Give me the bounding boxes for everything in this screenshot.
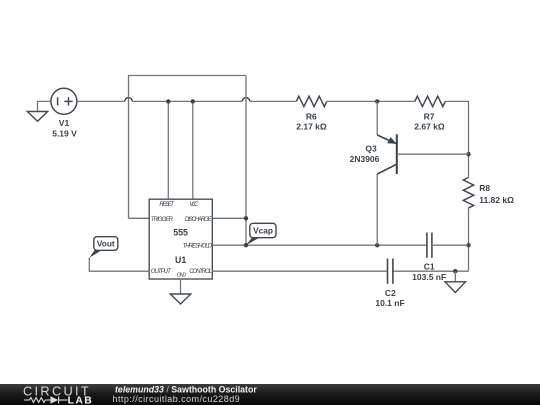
ic U1 555 box <box>149 199 212 279</box>
svg-text:OUTPUT: OUTPUT <box>151 268 172 275</box>
svg-text:DISCHARGE: DISCHARGE <box>185 216 213 223</box>
node: THRESHOLD-DISCHARGE tie <box>244 243 248 247</box>
wire: R6 to R7 <box>327 100 415 102</box>
wire: GND pin of U1 <box>180 279 182 294</box>
flag Vcap <box>246 223 276 245</box>
wire: DISCHARGE vertical down to THRESHOLD wire <box>245 76 247 246</box>
svg-text:Vout: Vout <box>97 239 115 249</box>
wire: rail down to Q3 emitter <box>376 101 378 135</box>
svg-text:R6: R6 <box>306 112 317 122</box>
wire: main rail V1 to R6 (hops over TRIGGER and DISCHARGE verticals) <box>77 100 296 102</box>
svg-text:CONTROL: CONTROL <box>189 268 212 275</box>
svg-text:TRIGGER: TRIGGER <box>151 216 174 223</box>
wire: rail to VCC pin <box>192 101 194 199</box>
svg-text:10.1 nF: 10.1 nF <box>375 298 404 308</box>
transistor Q3 emitter arrow <box>387 137 396 144</box>
node: emitter tie on rail <box>375 99 379 103</box>
node: base tie on right column <box>466 152 470 156</box>
node: C1 tie on right column <box>466 243 470 247</box>
svg-text:LAB: LAB <box>68 395 94 405</box>
svg-text:V1: V1 <box>59 118 70 128</box>
label R7 value <box>414 112 445 132</box>
svg-text:2.17 kΩ: 2.17 kΩ <box>296 122 327 132</box>
label C1 value <box>412 262 446 282</box>
wire: C1 right plate to column <box>432 244 469 246</box>
resistor R8 <box>463 178 473 208</box>
wire: V1 negative lead to ground <box>38 101 51 111</box>
svg-text:5.19 V: 5.19 V <box>52 128 77 138</box>
svg-text:2.67 kΩ: 2.67 kΩ <box>414 122 445 132</box>
ic U1 pin labels <box>151 201 213 279</box>
wire hop at x=246 <box>242 98 250 102</box>
ic U1 designator and type <box>173 227 188 265</box>
wire: Q3 collector down to THRESHOLD wire <box>376 174 378 245</box>
label Q3 <box>350 143 380 163</box>
wire: Q3 base to right column <box>397 153 469 155</box>
voltage source V1 <box>51 88 77 114</box>
svg-text:U1: U1 <box>175 255 186 265</box>
footer bar <box>0 384 540 405</box>
svg-text:C2: C2 <box>385 288 396 298</box>
svg-text:R7: R7 <box>424 112 435 122</box>
label C2 value <box>375 288 404 308</box>
footer logo diode triangle <box>50 396 58 404</box>
wire: TRIGGER loop (top horizontal and left vertical to TRIGGER pin) <box>129 76 247 219</box>
label R6 value <box>296 112 327 132</box>
svg-text:103.5 nF: 103.5 nF <box>412 272 446 282</box>
footer logo circuit doodle <box>24 396 68 403</box>
svg-text:Vcap: Vcap <box>253 226 273 236</box>
svg-text:Q3: Q3 <box>365 143 377 153</box>
node: ground tie on control wire <box>453 269 457 273</box>
wire: R7 to right column <box>445 101 468 177</box>
node: rail-RESET junction <box>166 99 170 103</box>
flag Vout <box>89 237 118 258</box>
resistor R6 <box>296 96 326 106</box>
resistor R7 <box>415 96 445 106</box>
node: collector to THRESHOLD wire <box>375 243 379 247</box>
wire: DISCHARGE pin stub <box>212 217 246 219</box>
ground (at V1) <box>27 112 47 122</box>
svg-text:http://circuitlab.com/cu228d9: http://circuitlab.com/cu228d9 <box>113 394 241 404</box>
svg-text:C1: C1 <box>424 262 435 272</box>
wire: OUTPUT pin to Vout terminal <box>89 258 149 271</box>
svg-text:RESET: RESET <box>159 201 175 208</box>
capacitor C2 <box>388 259 393 284</box>
ground (bottom right) <box>445 282 465 293</box>
transistor Q3 (PNP 2N3906) <box>377 134 397 174</box>
capacitor C1 <box>427 233 432 258</box>
wire: C2 right plate to ground corner <box>393 270 469 272</box>
wire: rail to RESET pin <box>167 101 169 199</box>
svg-text:VCC: VCC <box>189 201 199 208</box>
label V1 value <box>52 118 77 138</box>
svg-text:R8: R8 <box>479 183 490 193</box>
wire: CONTROL pin to C2 left plate <box>212 270 387 272</box>
ground (at U1 GND) <box>170 294 190 304</box>
svg-text:2N3906: 2N3906 <box>350 154 380 164</box>
node: rail-VCC junction <box>191 99 195 103</box>
svg-text:11.82 kΩ: 11.82 kΩ <box>479 195 514 205</box>
svg-text:555: 555 <box>173 227 188 237</box>
wire hop at x=128.5 <box>125 98 133 102</box>
svg-text:THRESHOLD: THRESHOLD <box>183 242 213 249</box>
wire: ground stub <box>454 271 456 282</box>
svg-text:GND: GND <box>177 272 186 278</box>
label R8 value <box>479 183 514 205</box>
wire: R8 to C1 junction and down to control corner <box>468 208 470 271</box>
wire: THRESHOLD to C1 left plate <box>212 244 427 246</box>
node: DISCHARGE junction <box>244 216 248 220</box>
